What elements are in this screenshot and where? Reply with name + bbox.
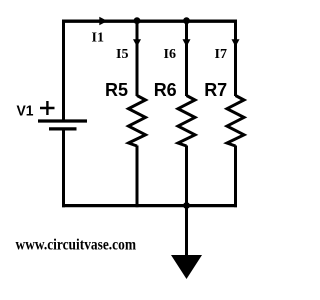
svg-text:I5: I5 — [116, 47, 128, 62]
wire bottom horizontal — [62, 204, 237, 207]
voltage source V1 battery bottom plate (negative) — [49, 127, 77, 130]
arrow I1 — [99, 17, 107, 26]
svg-text:I7: I7 — [215, 47, 227, 62]
wire top horizontal — [62, 20, 237, 23]
svg-text:I1: I1 — [92, 31, 104, 46]
svg-text:V1: V1 — [17, 103, 34, 120]
svg-text:I6: I6 — [164, 47, 176, 62]
ground — [171, 255, 202, 279]
arrow I5 — [133, 39, 141, 47]
wire right vertical (R7 branch) upper — [234, 20, 237, 97]
arrow I7 — [232, 39, 240, 47]
junction node top of R6 — [183, 17, 190, 24]
wire branch R6 upper — [185, 20, 188, 97]
voltage source V1 battery top plate (positive) — [38, 119, 87, 122]
svg-text:R7: R7 — [204, 80, 227, 100]
plus sign of V1 — [40, 101, 55, 115]
svg-text:www.circuitvase.com: www.circuitvase.com — [16, 237, 137, 254]
junction node top of R5 — [134, 17, 141, 24]
resistor R6 — [178, 96, 195, 147]
svg-text:R6: R6 — [154, 80, 177, 100]
wire branch R7 lower — [234, 146, 237, 208]
wire branch R5 upper — [136, 20, 139, 97]
wire ground stub — [185, 205, 188, 256]
wire left vertical upper (V1 positive to top rail) — [62, 20, 65, 121]
resistor R7 — [227, 96, 244, 147]
junction node bottom (ground tap) — [183, 202, 190, 209]
svg-text:R5: R5 — [105, 80, 128, 100]
wire branch R5 lower — [136, 146, 139, 208]
wire branch R6 lower — [185, 146, 188, 208]
wire left vertical lower (V1 negative to bottom rail) — [62, 130, 65, 207]
resistor R5 — [129, 96, 146, 147]
arrow I6 — [183, 39, 191, 47]
